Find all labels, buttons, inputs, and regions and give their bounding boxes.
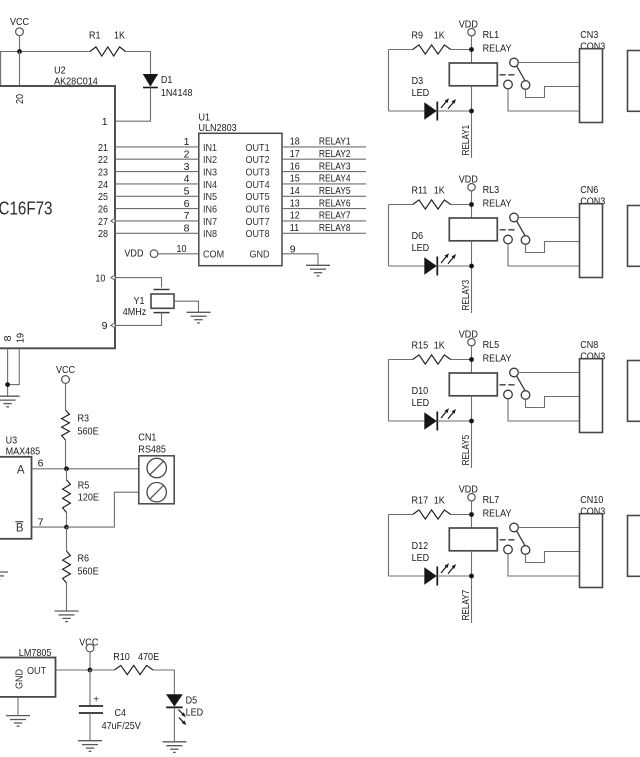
relay coil RL5 — [449, 339, 511, 396]
svg-text:LM7805: LM7805 — [19, 647, 52, 659]
svg-text:RL3: RL3 — [483, 184, 500, 196]
pin 9 label — [290, 244, 296, 256]
wire — [389, 359, 472, 361]
mechanical coupling (dashed) — [500, 384, 515, 386]
svg-text:Y1: Y1 — [134, 295, 145, 307]
wire — [471, 191, 473, 218]
wire U1 OUT8 net RELAY8 — [282, 232, 366, 234]
svg-text:CN10: CN10 — [580, 494, 603, 506]
power symbol VCC (top left) — [10, 16, 29, 51]
svg-text:21: 21 — [98, 142, 108, 154]
driver U1 ULN2803 — [199, 112, 283, 266]
svg-text:RELAY6: RELAY6 — [319, 197, 351, 209]
power symbol VDD (RL5) — [459, 329, 478, 346]
svg-text:R17: R17 — [412, 495, 429, 507]
svg-text:16: 16 — [290, 160, 300, 172]
svg-text:B: B — [16, 523, 24, 535]
svg-text:1: 1 — [102, 116, 108, 128]
resistor R17 1K — [412, 495, 451, 519]
power symbol VCC (R3) — [56, 364, 75, 410]
wire U1 OUT1 net RELAY1 — [282, 146, 366, 148]
wire U2 pin 22 to U1 IN2 — [115, 158, 199, 160]
net label RELAY1 — [319, 136, 351, 148]
svg-text:CON3: CON3 — [580, 40, 605, 52]
net label RELAY3 — [319, 160, 351, 172]
wire — [90, 670, 174, 694]
svg-text:560E: 560E — [78, 565, 99, 577]
junction dot — [469, 574, 474, 579]
junction dot — [469, 512, 474, 517]
svg-text:120E: 120E — [78, 491, 99, 503]
svg-text:RL5: RL5 — [483, 339, 500, 351]
svg-text:RELAY1: RELAY1 — [319, 136, 351, 148]
junction dot — [469, 109, 474, 114]
svg-text:10: 10 — [95, 272, 105, 284]
svg-text:19: 19 — [15, 333, 27, 343]
svg-text:IN4: IN4 — [203, 179, 217, 191]
svg-text:IN3: IN3 — [203, 167, 217, 179]
svg-text:VCC: VCC — [10, 16, 29, 28]
switch contact NC — [504, 80, 513, 89]
svg-text:D6: D6 — [412, 230, 424, 242]
svg-text:RELAY7: RELAY7 — [319, 210, 351, 222]
svg-text:RL7: RL7 — [483, 494, 500, 506]
switch contact NC — [504, 390, 513, 399]
ground (U1 pin 9) — [306, 265, 330, 276]
svg-text:R3: R3 — [78, 412, 90, 424]
wire LM7805 GND pin — [17, 697, 19, 716]
ground (LM7805) — [6, 716, 30, 727]
svg-text:23: 23 — [98, 167, 108, 179]
wire — [19, 52, 21, 87]
svg-text:3: 3 — [184, 161, 190, 173]
svg-text:13: 13 — [290, 197, 300, 209]
svg-text:A: A — [17, 464, 25, 476]
wire — [89, 713, 91, 741]
wire NC to CN pin 3 — [508, 89, 580, 111]
wire — [66, 527, 68, 611]
svg-text:1N4148: 1N4148 — [161, 87, 193, 99]
svg-text:OUT: OUT — [27, 665, 47, 677]
wire U2 pin 24 to U1 IN4 — [115, 183, 199, 185]
wire — [65, 440, 67, 469]
svg-text:CN3: CN3 — [580, 29, 598, 41]
wire NC to CN pin 3 — [508, 399, 580, 421]
connector CN10 CON3 — [580, 494, 606, 588]
pin 17 label — [290, 148, 300, 160]
connector CN3 CON3 — [580, 29, 606, 123]
resistor R9 1K — [412, 30, 451, 55]
svg-text:U3: U3 — [6, 434, 18, 446]
junction dot — [469, 357, 474, 362]
wire — [437, 420, 471, 422]
svg-text:D10: D10 — [412, 385, 429, 397]
net label RELAY5 — [460, 435, 472, 466]
switch contact NO — [521, 81, 530, 90]
svg-text:IN6: IN6 — [203, 204, 217, 216]
svg-text:11: 11 — [290, 222, 300, 234]
svg-text:RELAY: RELAY — [483, 43, 512, 55]
wire U3 pin 7 (B) — [32, 526, 67, 528]
svg-text:+: + — [93, 695, 99, 706]
pin 1 label — [184, 136, 190, 148]
switch contact NO — [521, 236, 530, 245]
pin 26 label — [98, 204, 108, 216]
wire U2 pin 25 to U1 IN5 — [115, 195, 199, 197]
connector CN6 CON3 — [580, 184, 606, 278]
svg-text:1K: 1K — [434, 495, 445, 507]
net label RELAY7 — [319, 210, 351, 222]
pin 27 label — [98, 216, 108, 228]
svg-text:LED: LED — [412, 397, 430, 409]
svg-text:8: 8 — [2, 335, 14, 341]
switch contact NO — [521, 391, 530, 400]
connector (partial, right edge) — [628, 206, 640, 267]
wire NO to CN pin 2 — [526, 397, 580, 408]
wire NC to CN pin 3 — [508, 554, 580, 576]
pin 15 label — [290, 173, 300, 185]
switch common contact — [510, 58, 519, 67]
svg-text:VDD: VDD — [459, 19, 478, 31]
wire — [0, 52, 2, 87]
pin 22 label — [98, 154, 108, 166]
net label RELAY6 — [319, 197, 351, 209]
pin 16 label — [290, 160, 300, 172]
wire LM7805 OUT — [56, 669, 91, 671]
svg-text:C4: C4 — [115, 707, 127, 719]
wire pole to CN pin 1 — [518, 217, 579, 219]
svg-text:15: 15 — [290, 173, 300, 185]
regulator LM7805 — [0, 647, 56, 697]
svg-text:OUT3: OUT3 — [246, 167, 270, 179]
wire U2 pin 8 — [7, 348, 9, 396]
svg-text:17: 17 — [290, 148, 300, 160]
wire — [471, 501, 473, 528]
svg-text:R1: R1 — [89, 30, 101, 42]
svg-text:RELAY: RELAY — [483, 353, 512, 365]
svg-text:D1: D1 — [161, 74, 173, 86]
svg-text:CON3: CON3 — [580, 195, 605, 207]
svg-text:VDD: VDD — [459, 329, 478, 341]
svg-text:GND: GND — [250, 249, 270, 261]
svg-text:9: 9 — [290, 244, 296, 256]
wire U3 pin 6 (A) to CN1 — [32, 468, 139, 470]
wire — [126, 52, 151, 75]
svg-text:RELAY1: RELAY1 — [460, 125, 472, 156]
power symbol VCC (5V rail) — [79, 637, 98, 670]
svg-text:6: 6 — [38, 457, 44, 469]
svg-text:12: 12 — [290, 210, 300, 222]
resistor R15 1K — [412, 340, 451, 365]
wire U2 pin 27 to U1 IN7 — [115, 220, 199, 222]
svg-text:CN1: CN1 — [138, 432, 156, 444]
net label RELAY4 — [319, 173, 351, 185]
pin 10 label — [95, 272, 105, 284]
svg-text:OUT6: OUT6 — [246, 204, 270, 216]
resistor R10 470E — [113, 651, 159, 675]
svg-text:RELAY: RELAY — [483, 508, 512, 520]
wire NO to CN pin 2 — [526, 552, 580, 563]
wire — [471, 551, 473, 623]
junction dot — [469, 419, 474, 424]
svg-text:U2: U2 — [54, 64, 66, 76]
svg-text:R6: R6 — [78, 552, 90, 564]
wire pole to CN pin 1 — [518, 62, 579, 64]
svg-text:OUT4: OUT4 — [246, 179, 270, 191]
svg-text:GND: GND — [14, 669, 26, 689]
svg-text:RELAY: RELAY — [483, 198, 512, 210]
svg-text:1K: 1K — [434, 30, 445, 42]
svg-text:RELAY5: RELAY5 — [460, 435, 472, 466]
svg-text:RELAY5: RELAY5 — [319, 185, 351, 197]
connector CN8 CON3 — [580, 339, 606, 433]
svg-text:OUT1: OUT1 — [246, 142, 270, 154]
svg-text:RELAY2: RELAY2 — [319, 148, 351, 160]
net label RELAY3 — [460, 280, 472, 311]
power symbol VDD (U1 COM) — [124, 247, 157, 259]
svg-text:CON3: CON3 — [580, 350, 605, 362]
svg-text:RELAY8: RELAY8 — [319, 222, 351, 234]
wire pole to CN pin 1 — [518, 372, 579, 374]
wire — [437, 575, 471, 577]
wire — [471, 346, 473, 373]
svg-text:470E: 470E — [138, 651, 159, 663]
resistor R6 560E — [63, 551, 99, 583]
relay coil RL7 — [449, 494, 511, 551]
wire — [389, 514, 472, 516]
connector (partial, right edge) — [628, 361, 640, 422]
svg-text:IN2: IN2 — [203, 154, 217, 166]
junction dot — [5, 382, 10, 387]
pin 8 label — [184, 223, 190, 235]
svg-text:27: 27 — [98, 216, 108, 228]
wire U1 OUT3 net RELAY3 — [282, 171, 366, 173]
svg-text:8: 8 — [184, 223, 190, 235]
ground (R6) — [55, 611, 79, 622]
wire U2 pin 26 to U1 IN6 — [115, 208, 199, 210]
wire — [115, 313, 162, 326]
wire — [471, 86, 473, 158]
svg-text:RL1: RL1 — [483, 29, 500, 41]
svg-text:ULN2803: ULN2803 — [199, 122, 237, 134]
transceiver U3 MAX485 — [0, 434, 40, 539]
wire U1 OUT7 net RELAY7 — [282, 220, 366, 222]
wire U1 OUT2 net RELAY2 — [282, 158, 366, 160]
connector CN1 RS485 — [138, 432, 174, 504]
pin 9 label — [102, 320, 108, 332]
svg-text:LED: LED — [412, 552, 430, 564]
wire U2 pin 19 — [8, 348, 20, 384]
svg-text:CN8: CN8 — [580, 339, 598, 351]
pin 6 label — [184, 198, 190, 210]
svg-text:OUT8: OUT8 — [246, 228, 270, 240]
wire U1 GND pin 9 — [282, 254, 318, 265]
svg-text:24: 24 — [98, 179, 108, 191]
net label RELAY8 — [319, 222, 351, 234]
net label RELAY7 — [460, 590, 472, 621]
LED D12 — [389, 540, 457, 586]
pin 13 label — [290, 197, 300, 209]
wire to CN1 pin 2 — [67, 492, 139, 527]
wire U2 pin 21 to U1 IN1 — [115, 146, 199, 148]
wire pole to CN pin 1 — [518, 527, 579, 529]
svg-text:R5: R5 — [78, 479, 90, 491]
wire U1 OUT5 net RELAY5 — [282, 195, 366, 197]
junction dot — [64, 525, 69, 530]
junction dot — [17, 49, 22, 54]
pin 1 label — [102, 116, 108, 128]
svg-text:IN8: IN8 — [203, 228, 217, 240]
pin 3 label — [184, 161, 190, 173]
svg-text:RELAY7: RELAY7 — [460, 590, 472, 621]
svg-text:D5: D5 — [186, 694, 198, 706]
wire — [0, 51, 90, 53]
svg-text:560E: 560E — [78, 425, 99, 437]
resistor R3 560E — [62, 410, 99, 440]
wire — [388, 515, 390, 577]
LED D3 — [389, 75, 457, 121]
svg-text:CN6: CN6 — [580, 184, 598, 196]
switch common contact — [510, 213, 519, 222]
svg-text:1K: 1K — [434, 340, 445, 352]
resistor R1 — [89, 30, 126, 57]
switch arm — [517, 221, 526, 236]
wire — [471, 241, 473, 313]
wire NO to CN pin 2 — [526, 87, 580, 98]
relay coil RL3 — [449, 184, 511, 241]
pin 7 label — [184, 210, 190, 222]
switch arm — [517, 66, 526, 81]
svg-text:47uF/25V: 47uF/25V — [102, 720, 141, 732]
svg-text:VDD: VDD — [459, 174, 478, 186]
svg-text:R10: R10 — [113, 651, 130, 663]
svg-text:VDD: VDD — [459, 484, 478, 496]
mechanical coupling (dashed) — [500, 539, 515, 541]
connector (partial, right edge) — [628, 516, 640, 577]
diode D1 — [143, 74, 193, 99]
relay coil RL1 — [449, 29, 511, 86]
crystal resonator Y1 4MHz — [123, 290, 174, 319]
pin 10 label — [177, 243, 187, 255]
ground (U2 pins 8,19) — [0, 396, 20, 407]
pin 20 label — [14, 94, 26, 104]
svg-text:LED: LED — [412, 242, 430, 254]
svg-text:7: 7 — [38, 516, 44, 528]
svg-text:25: 25 — [98, 191, 108, 203]
junction dot — [469, 264, 474, 269]
power symbol VDD (RL3) — [459, 174, 478, 191]
svg-text:RELAY4: RELAY4 — [319, 173, 351, 185]
pin 6 label — [38, 457, 44, 469]
pin 2 label — [184, 148, 190, 160]
pin 8 label — [2, 335, 14, 341]
pin 19 label — [15, 333, 27, 343]
mechanical coupling (dashed) — [500, 229, 515, 231]
svg-text:10: 10 — [177, 243, 187, 255]
wire — [388, 360, 390, 422]
ground (C4) — [78, 741, 102, 752]
pin 9 input arrow — [111, 323, 115, 328]
svg-text:RS485: RS485 — [138, 444, 166, 456]
wire — [437, 265, 471, 267]
svg-text:OUT2: OUT2 — [246, 154, 270, 166]
switch arm — [517, 376, 526, 391]
net label RELAY2 — [319, 148, 351, 160]
svg-text:22: 22 — [98, 154, 108, 166]
switch contact NO — [521, 546, 530, 555]
svg-text:4: 4 — [184, 173, 190, 185]
ground (U3, partial at edge) — [0, 572, 8, 583]
wire — [437, 110, 471, 112]
connector (partial, right edge) — [628, 51, 640, 112]
svg-text:26: 26 — [98, 204, 108, 216]
resistor R11 1K — [412, 185, 451, 210]
wire — [471, 396, 473, 468]
wire — [66, 469, 68, 527]
wire Y1 to ground — [174, 301, 199, 312]
junction dot — [469, 47, 474, 52]
wire — [89, 670, 91, 706]
net label RELAY5 — [319, 185, 351, 197]
pin 14 label — [290, 185, 300, 197]
svg-text:CON3: CON3 — [580, 505, 605, 517]
wire — [389, 49, 472, 51]
pin 23 label — [98, 167, 108, 179]
wire U1 OUT4 net RELAY4 — [282, 183, 366, 185]
svg-text:RELAY3: RELAY3 — [460, 280, 472, 311]
svg-text:18: 18 — [290, 136, 300, 148]
wire U1 OUT6 net RELAY6 — [282, 208, 366, 210]
ground (Y1) — [187, 312, 211, 323]
wire — [471, 36, 473, 63]
svg-text:1K: 1K — [114, 30, 125, 42]
svg-text:1K: 1K — [434, 185, 445, 197]
ground (D5) — [162, 742, 186, 753]
svg-text:R15: R15 — [412, 340, 429, 352]
wire U2 pin 28 to U1 IN8 — [115, 232, 199, 234]
svg-text:R9: R9 — [412, 30, 424, 42]
wire — [173, 707, 175, 741]
resistor R5 120E — [63, 479, 99, 512]
svg-text:R11: R11 — [412, 185, 428, 197]
svg-text:LED: LED — [186, 707, 204, 719]
pin 5 label — [184, 186, 190, 198]
svg-text:D3: D3 — [412, 75, 424, 87]
wire — [389, 204, 472, 206]
svg-text:AK28C014: AK28C014 — [54, 76, 98, 88]
svg-text:IN7: IN7 — [203, 216, 217, 228]
pin 10 input arrow — [111, 275, 115, 280]
wire U2 pin 23 to U1 IN3 — [115, 171, 199, 173]
pin 24 label — [98, 179, 108, 191]
svg-text:IN1: IN1 — [203, 142, 217, 154]
wire — [388, 205, 390, 267]
pin 21 label — [98, 142, 108, 154]
svg-text:VCC: VCC — [56, 364, 75, 376]
pin 18 label — [290, 136, 300, 148]
switch arm — [517, 531, 526, 546]
svg-text:MAX485: MAX485 — [6, 446, 41, 458]
wire — [388, 50, 390, 112]
pin 28 label — [98, 228, 108, 240]
LED D6 — [389, 230, 457, 276]
switch common contact — [510, 523, 519, 532]
pin 27 input arrow — [111, 218, 115, 223]
svg-text:6: 6 — [184, 198, 190, 210]
mechanical coupling (dashed) — [500, 74, 515, 76]
wire U2 pin 10 to Y1 — [115, 278, 162, 288]
svg-text:5: 5 — [184, 186, 190, 198]
